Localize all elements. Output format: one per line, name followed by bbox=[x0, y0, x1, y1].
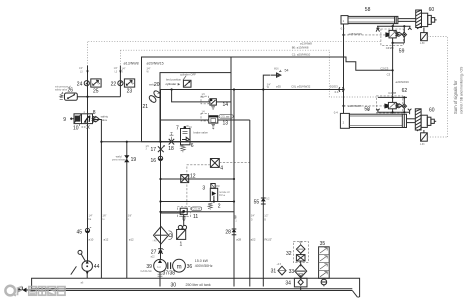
svg-text:7: 7 bbox=[176, 126, 179, 132]
node C0L x V9 bbox=[262, 88, 264, 90]
svg-text:C0L ø35/NW32: C0L ø35/NW32 bbox=[291, 85, 311, 89]
wire H-211.8 bbox=[161, 211, 235, 213]
svg-text:weld: weld bbox=[116, 155, 122, 159]
oil tank 30 bbox=[32, 278, 360, 297]
svg-text:23: 23 bbox=[127, 89, 133, 95]
annotation box cylinder position bbox=[166, 73, 197, 88]
svg-text:11: 11 bbox=[193, 214, 198, 220]
svg-text:250 liter oil tank: 250 liter oil tank bbox=[186, 283, 211, 287]
node H179 x V7 bbox=[233, 178, 235, 180]
wire V3 drain rail to tank bbox=[100, 128, 102, 279]
svg-text:15.0 kW: 15.0 kW bbox=[195, 259, 209, 263]
svg-text:28: 28 bbox=[225, 230, 231, 236]
node V5 x H211.8 bbox=[159, 211, 161, 213]
svg-text:valve: valve bbox=[101, 118, 108, 122]
manual override 10 bbox=[80, 124, 90, 129]
pump 39 bbox=[154, 259, 167, 272]
svg-text:58: 58 bbox=[364, 107, 370, 113]
svg-text:58: 58 bbox=[365, 7, 371, 13]
node V5 x H201.5 bbox=[159, 200, 161, 202]
svg-text:3/8": 3/8" bbox=[128, 216, 132, 218]
svg-text:Sum of signals for: Sum of signals for bbox=[453, 80, 458, 114]
svg-text:25: 25 bbox=[93, 89, 99, 95]
svg-text:COL ▸▸▸: COL ▸▸▸ bbox=[221, 115, 230, 118]
wire valve8 drain to V3 bbox=[93, 120, 102, 128]
node V3 x H141.7 bbox=[100, 141, 102, 143]
svg-text:62: 62 bbox=[402, 88, 408, 94]
svg-text:31: 31 bbox=[271, 268, 277, 274]
node pilot 62 tap bbox=[342, 105, 344, 107]
tag oval COL at 13 bbox=[219, 115, 233, 119]
svg-text:control / SB and monitoring /: control / SB and monitoring / OS bbox=[460, 66, 464, 114]
svg-text:COL ▸▸: COL ▸▸ bbox=[193, 208, 201, 211]
svg-text:1/4": 1/4" bbox=[114, 68, 118, 70]
wire valve14 out bbox=[216, 101, 231, 103]
label 20 bbox=[149, 82, 160, 88]
svg-text:C4'Ø8: C4'Ø8 bbox=[388, 91, 396, 95]
svg-text:cylinder OFF: cylinder OFF bbox=[180, 73, 196, 77]
svg-text:35: 35 bbox=[320, 241, 326, 247]
svg-text:14: 14 bbox=[223, 102, 229, 108]
wire rod port cyl2 bbox=[409, 112, 411, 114]
wire dashed pilot valve4 to V8 bbox=[219, 161, 250, 163]
wire V4 unload line to tank bbox=[126, 142, 128, 279]
transducer 1-63 lower bbox=[420, 130, 428, 146]
solenoid valve 12 bbox=[181, 175, 189, 183]
brake valve 6 bbox=[181, 129, 191, 153]
test coupling 23 bbox=[124, 79, 134, 87]
wire V7 ø28 rail bbox=[233, 90, 235, 287]
drain ball valve bbox=[18, 287, 32, 293]
svg-text:safety valve: safety valve bbox=[55, 88, 68, 91]
wire valve59 down to C-junction bbox=[392, 43, 394, 98]
svg-text:cylinder: cylinder bbox=[166, 82, 178, 86]
transducer 1-59 upper bbox=[420, 28, 428, 46]
node V5 x H179 bbox=[159, 178, 161, 180]
svg-text:ø22: ø22 bbox=[251, 238, 256, 242]
wall mount lower bbox=[415, 109, 421, 131]
wire dashed pilot to valve 59 bbox=[344, 34, 386, 36]
svg-text:16: 16 bbox=[151, 158, 157, 164]
svg-text:22: 22 bbox=[111, 81, 117, 87]
check valve 55 bbox=[261, 198, 270, 204]
return filter 33 bbox=[295, 261, 307, 278]
svg-text:C2/C3: C2/C3 bbox=[380, 67, 388, 71]
port note V2 bbox=[114, 68, 118, 73]
breather 31 bbox=[277, 264, 287, 275]
svg-text:12: 12 bbox=[190, 174, 196, 180]
node C2/C3 junction bbox=[392, 69, 394, 71]
pilot ball 7 bbox=[184, 126, 193, 129]
solenoid vent valve 4 bbox=[210, 159, 219, 168]
node pilot 59 tap bbox=[342, 34, 344, 36]
svg-text:400V/50Hz: 400V/50Hz bbox=[195, 264, 213, 268]
in-tank return 34 bbox=[294, 275, 307, 290]
svg-text:39: 39 bbox=[146, 264, 152, 270]
svg-text:ø20/NW16: ø20/NW16 bbox=[396, 80, 410, 84]
orifice at C0L end bbox=[339, 87, 344, 91]
wire pump suction bbox=[158, 272, 163, 287]
svg-text:24: 24 bbox=[77, 81, 83, 87]
tag oval COL at 11 bbox=[191, 207, 201, 211]
check valve 28 bbox=[232, 229, 237, 235]
check valve 16 bbox=[158, 156, 162, 161]
label pipe ø20/NW15 top bbox=[147, 62, 164, 74]
svg-text:1: 1 bbox=[180, 242, 183, 248]
wire C1 pipe with step bbox=[231, 57, 393, 70]
svg-text:1/4": 1/4" bbox=[89, 216, 93, 218]
svg-text:19: 19 bbox=[131, 157, 137, 163]
svg-text:ø28/NW25: ø28/NW25 bbox=[348, 32, 362, 36]
svg-text:+0.5: +0.5 bbox=[277, 264, 282, 266]
wire cap-side rail between cylinders bbox=[343, 24, 345, 113]
relief valve 14 bbox=[201, 94, 216, 109]
svg-text:1/4": 1/4" bbox=[79, 68, 83, 70]
counterbalance valve 59 bbox=[376, 25, 411, 45]
svg-text:44: 44 bbox=[94, 264, 100, 270]
svg-text:20: 20 bbox=[154, 82, 160, 88]
manifold block outline A bbox=[142, 57, 232, 142]
wire V8 ø22 rail bbox=[249, 120, 251, 287]
svg-text:1-59: 1-59 bbox=[420, 43, 425, 45]
label 17 bbox=[146, 146, 157, 153]
cylinder 58 lower bbox=[340, 113, 415, 128]
svg-text:34: 34 bbox=[285, 280, 291, 286]
needle valve 18 bbox=[169, 133, 175, 145]
svg-text:6: 6 bbox=[191, 143, 194, 149]
clamp head 60 upper bbox=[422, 13, 437, 26]
pipe size labels bottom bbox=[89, 238, 273, 242]
svg-text:4: 4 bbox=[220, 166, 223, 172]
wire dashed pilot valve4 to valve11 bbox=[187, 165, 211, 207]
svg-text:10: 10 bbox=[73, 126, 79, 132]
wire H-141.7 main cross line bbox=[101, 141, 231, 143]
svg-text:ø12: ø12 bbox=[104, 238, 109, 242]
svg-text:26: 26 bbox=[68, 88, 74, 94]
svg-text:32: 32 bbox=[286, 251, 292, 257]
wire rod port cyl1 bbox=[392, 24, 394, 27]
svg-text:27: 27 bbox=[151, 250, 157, 256]
proportional relief valve 2 with solenoid 3 bbox=[208, 184, 220, 210]
counterbalance valve 62 bbox=[376, 96, 411, 114]
port marks on rails bbox=[89, 216, 269, 223]
note rotated sum of signals bbox=[453, 66, 464, 114]
svg-text:0+8.0L/min: 0+8.0L/min bbox=[141, 271, 153, 273]
manifold block outline B bbox=[160, 73, 231, 142]
svg-text:2: 2 bbox=[218, 204, 221, 210]
wire H-213 stub bbox=[161, 212, 184, 214]
needle valve 17 bbox=[158, 145, 165, 152]
level gauge 35 bbox=[319, 247, 330, 278]
clog indicator 1 bbox=[177, 225, 187, 239]
svg-text:C1: ø20/NW10: C1: ø20/NW10 bbox=[292, 53, 311, 57]
wire leak line dotted A bbox=[88, 41, 381, 43]
coupling 37/38 bbox=[163, 262, 176, 276]
wire V1 main gauge/hand-pump rail bbox=[86, 42, 88, 279]
svg-text:0.4: 0.4 bbox=[335, 90, 339, 94]
node C0L joins cap rail bbox=[342, 88, 344, 90]
svg-text:0.4: 0.4 bbox=[334, 111, 338, 115]
unloader valve 11 bbox=[177, 207, 190, 221]
svg-text:3: 3 bbox=[202, 185, 205, 191]
svg-text:1/4": 1/4" bbox=[122, 69, 126, 71]
svg-text:remote ctl: remote ctl bbox=[219, 191, 230, 194]
node C0L branch bbox=[171, 88, 173, 90]
svg-text:33: 33 bbox=[289, 269, 295, 275]
gauge 22 bbox=[118, 81, 123, 86]
wire pilot line dotted B bbox=[120, 50, 378, 97]
wire C0L main cylinder line bbox=[160, 89, 339, 91]
thermometer under 35 bbox=[321, 278, 327, 286]
note at valve 2 bbox=[219, 191, 230, 197]
svg-text:ø35: ø35 bbox=[276, 85, 281, 89]
svg-text:37/38: 37/38 bbox=[163, 270, 176, 276]
svg-text:m: m bbox=[177, 264, 182, 270]
air breather 32 bbox=[293, 241, 308, 262]
shut-off valve 26 bbox=[65, 93, 78, 100]
svg-text:8: 8 bbox=[93, 110, 96, 116]
wire V9 leak rail bbox=[263, 75, 270, 286]
svg-text:55: 55 bbox=[254, 199, 260, 205]
svg-text:1/2": 1/2" bbox=[264, 216, 268, 218]
wire dotted transducer 1 bbox=[427, 37, 447, 137]
svg-text:60: 60 bbox=[429, 108, 435, 114]
wire H-201.5 bbox=[161, 201, 235, 203]
port note V1 bbox=[79, 68, 83, 73]
wire dashed pilot to valve 62 bbox=[344, 105, 385, 107]
rotary union 21 bbox=[148, 90, 162, 104]
note motor rating bbox=[195, 259, 213, 268]
svg-text:SV: SV bbox=[202, 97, 206, 99]
svg-text:D2/D3: D2/D3 bbox=[330, 84, 338, 88]
svg-text:ø28: ø28 bbox=[236, 238, 241, 242]
svg-text:Rt1/2": Rt1/2" bbox=[265, 238, 273, 242]
wire dotted transducer 2 bbox=[427, 136, 447, 138]
test coupling 54 bbox=[271, 69, 282, 78]
pressure filter 40 bbox=[153, 227, 169, 244]
flow arrow on V2 bbox=[119, 71, 121, 74]
relief spring left of valve 26 bbox=[60, 92, 64, 99]
safety valve 8 with solenoid 9 bbox=[70, 112, 99, 124]
wire V6 valve11 to indicator 1 bbox=[183, 215, 185, 226]
svg-text:59: 59 bbox=[399, 48, 405, 54]
svg-text:ø13/NW8: ø13/NW8 bbox=[300, 41, 312, 45]
dump valve 19 bbox=[112, 155, 129, 163]
svg-text:54: 54 bbox=[285, 69, 289, 73]
svg-text:ø12: ø12 bbox=[129, 238, 134, 242]
svg-text:21: 21 bbox=[143, 104, 149, 110]
svg-text:3/4": 3/4" bbox=[251, 216, 255, 218]
svg-text:18: 18 bbox=[168, 146, 174, 152]
gauge 24 bbox=[84, 81, 89, 86]
svg-text:3/4": 3/4" bbox=[147, 69, 151, 71]
node V4 x H141.7 bbox=[126, 141, 128, 143]
flow arrow on V1 bbox=[86, 71, 88, 74]
check valve 27 bbox=[151, 249, 164, 259]
svg-text:1-63: 1-63 bbox=[420, 144, 425, 146]
wire H-96.7 valve26 to gauges bbox=[77, 96, 120, 98]
svg-text:0.4: 0.4 bbox=[341, 26, 345, 30]
svg-text:brake valve: brake valve bbox=[194, 130, 209, 134]
svg-text:C3: C3 bbox=[387, 73, 391, 77]
motor 36 bbox=[173, 259, 186, 272]
svg-text:M16: M16 bbox=[274, 69, 279, 71]
relief valve 13 bbox=[201, 111, 218, 129]
svg-text:ø13/NW8: ø13/NW8 bbox=[124, 62, 139, 66]
svg-text:9: 9 bbox=[63, 117, 66, 123]
wire V2 gauge 22 branch bbox=[119, 50, 121, 65]
bypass check 41 bbox=[169, 231, 173, 240]
label D2/D3 bbox=[330, 84, 339, 93]
svg-text:DV+e: DV+e bbox=[219, 195, 226, 197]
label pipe ø13/NW8 top bbox=[122, 62, 139, 74]
label C0L bbox=[267, 84, 311, 89]
svg-text:13: 13 bbox=[223, 120, 229, 126]
svg-text:ø28/NW25: ø28/NW25 bbox=[348, 104, 362, 108]
wall mount upper bbox=[416, 10, 422, 29]
svg-text:36: 36 bbox=[187, 264, 193, 270]
svg-text:3/4": 3/4" bbox=[267, 84, 271, 86]
note safety valve bbox=[101, 115, 109, 122]
check valve 45 bbox=[85, 228, 91, 233]
wire valve13 out to V8 bbox=[218, 119, 250, 121]
svg-text:B0: ø13/NW8: B0: ø13/NW8 bbox=[292, 46, 309, 50]
node junction V1 x H-96.7 bbox=[86, 96, 88, 98]
svg-text:45: 45 bbox=[77, 230, 83, 236]
hand pump 44 bbox=[71, 250, 93, 274]
svg-text:ø20/NW15: ø20/NW15 bbox=[147, 62, 164, 66]
wire H-179 valve12 line bbox=[161, 178, 235, 180]
svg-text:60: 60 bbox=[429, 7, 435, 13]
svg-text:3/8": 3/8" bbox=[103, 216, 107, 218]
node V5 x H141.7 bbox=[159, 141, 161, 143]
node H201 x V7 bbox=[233, 200, 235, 202]
svg-text:30: 30 bbox=[171, 282, 177, 288]
wire V5 pressure rail bbox=[160, 90, 162, 260]
test coupling 25 bbox=[91, 79, 101, 87]
wire valve 13 line H-120 bbox=[160, 119, 209, 121]
svg-text:bed position: bed position bbox=[166, 78, 182, 82]
node C0L x V7 bbox=[233, 88, 235, 90]
clamp head 60 lower bbox=[421, 115, 436, 127]
cylinder 58 upper bbox=[341, 16, 416, 24]
wire branch to valve 14 bbox=[172, 90, 210, 102]
watermark logo bbox=[5, 286, 65, 296]
svg-text:17: 17 bbox=[151, 147, 157, 153]
svg-text:ø10: ø10 bbox=[89, 238, 94, 242]
note text min pressure bbox=[55, 86, 71, 92]
svg-text:press release: press release bbox=[112, 159, 127, 162]
